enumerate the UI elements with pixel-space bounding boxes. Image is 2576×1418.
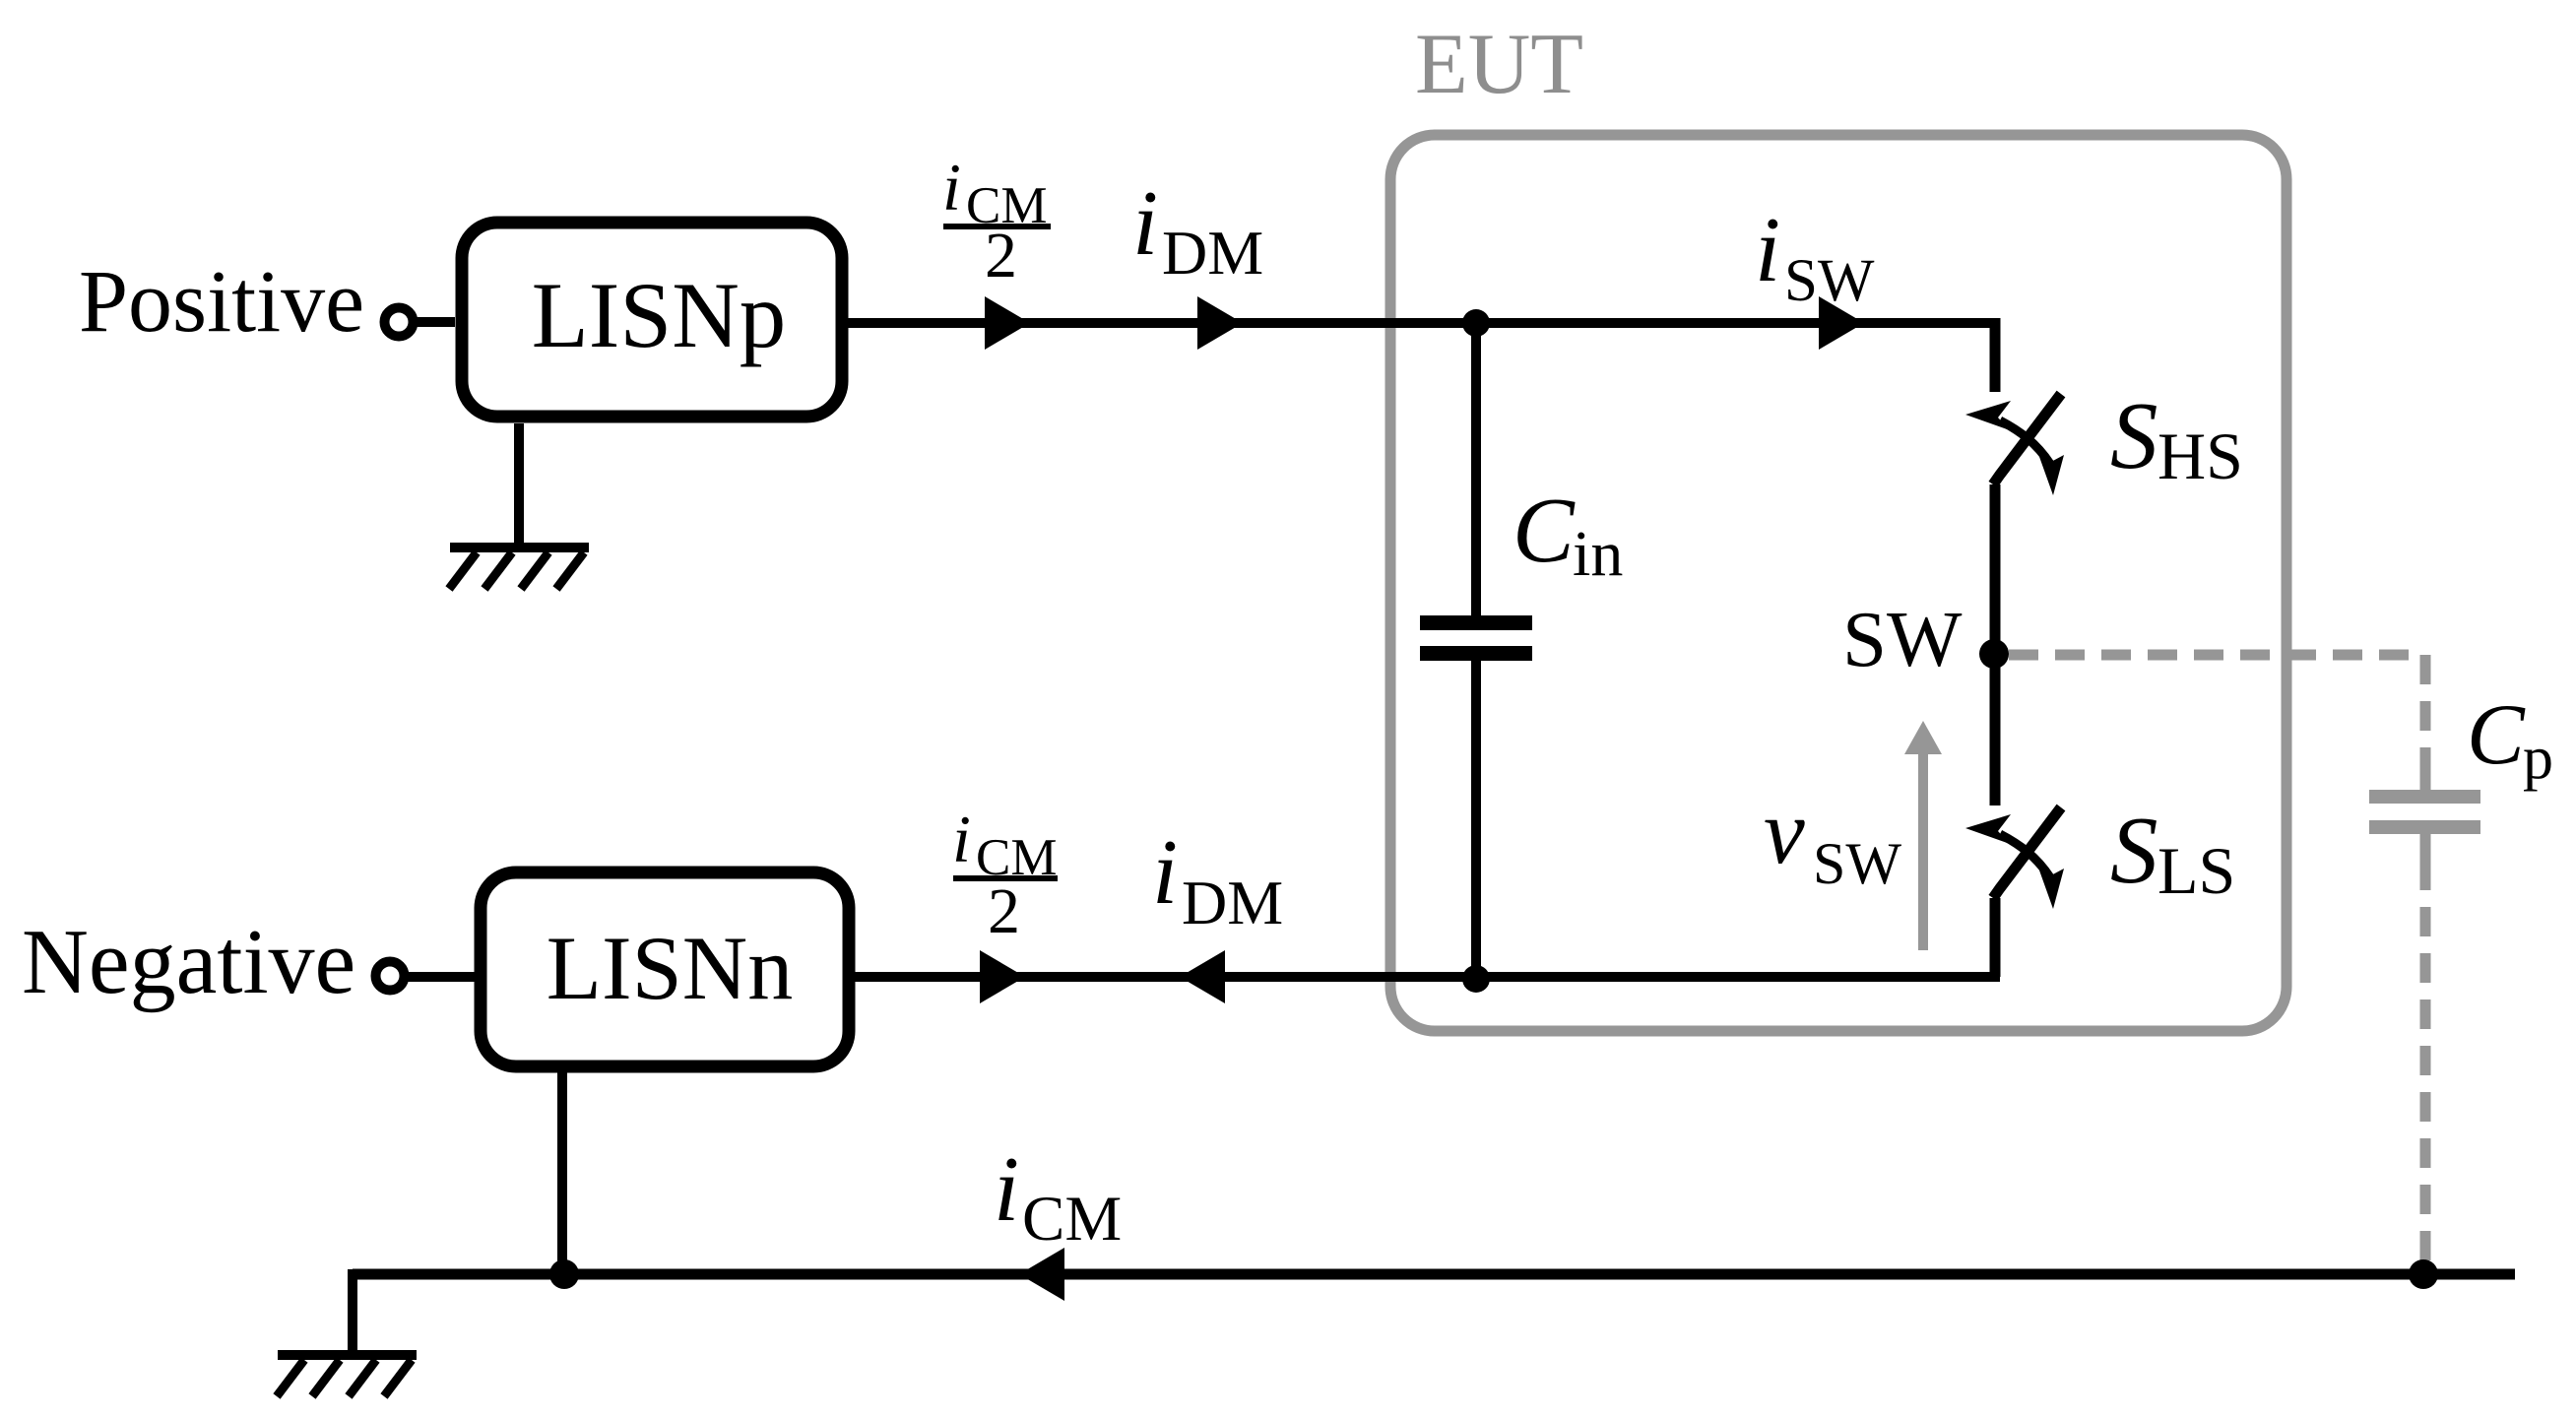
- label iSW: [1755, 199, 1875, 314]
- label iDM (bottom): [1152, 821, 1283, 937]
- svg-text:i: i: [952, 802, 971, 876]
- svg-text:i: i: [1755, 199, 1780, 301]
- node junction dot ground rail: [549, 1259, 579, 1289]
- svg-text:LISNp: LISNp: [532, 263, 787, 367]
- node Negative terminal circle: [376, 962, 405, 991]
- label Cin: [1513, 480, 1623, 590]
- wire Cp solid stub lower: [2420, 834, 2431, 861]
- block LISNp: [462, 223, 842, 417]
- wire LISNp ground stem: [514, 423, 524, 548]
- svg-text:LISNn: LISNn: [547, 918, 793, 1018]
- ground (bottom left): [277, 1355, 417, 1396]
- svg-text:Positive: Positive: [79, 253, 364, 351]
- node SW dot: [1979, 639, 2009, 669]
- svg-text:HS: HS: [2157, 419, 2243, 493]
- wire dashed SW to Cp (horizontal): [2009, 650, 2425, 661]
- block LISNn: [481, 872, 849, 1066]
- svg-text:CM: CM: [1022, 1184, 1122, 1255]
- svg-text:SW: SW: [1813, 831, 1901, 896]
- wire S_HS upper terminal from SW dot: [1990, 654, 2001, 806]
- node junction dot top (Cin top): [1462, 309, 1490, 337]
- svg-text:in: in: [1573, 518, 1623, 590]
- arrow vSW (gray): [1904, 721, 1942, 950]
- svg-text:Negative: Negative: [22, 911, 355, 1013]
- wire Cin upper lead: [1471, 323, 1481, 616]
- wire LISNn ground stem: [557, 1066, 567, 1274]
- wire S_LS lower terminal: [1990, 898, 2001, 977]
- svg-text:C: C: [2467, 687, 2526, 783]
- svg-text:i: i: [994, 1138, 1019, 1241]
- svg-text:p: p: [2523, 725, 2553, 792]
- label vSW: [1764, 781, 1901, 896]
- wire Cin lower lead: [1471, 661, 1481, 977]
- wire Cp solid stub upper: [2420, 758, 2431, 790]
- svg-text:SW: SW: [1842, 595, 1963, 683]
- wire S_HS to SW node: [1990, 484, 2001, 650]
- svg-text:S: S: [2110, 798, 2158, 903]
- label iCM/2 fraction (top): [942, 150, 1051, 291]
- arrowhead iCM/2 top: [985, 296, 1030, 350]
- wire switch branch corner down: [1990, 318, 2001, 392]
- wire dashed Cp vertical upper: [2420, 655, 2431, 766]
- capacitor Cin: [1420, 615, 1532, 661]
- capacitor Cp: [2369, 790, 2480, 834]
- svg-text:S: S: [2110, 383, 2158, 488]
- switch S_HS: [1965, 394, 2064, 495]
- label iCM (bottom rail): [994, 1138, 1122, 1255]
- label S_HS: [2110, 383, 2243, 493]
- label Cp: [2467, 687, 2553, 792]
- wire Negative terminal to LISNn: [405, 972, 475, 982]
- svg-text:EUT: EUT: [1415, 17, 1583, 112]
- ground (under LISNp): [449, 548, 589, 589]
- svg-text:i: i: [942, 150, 961, 225]
- svg-text:DM: DM: [1162, 218, 1263, 288]
- wire top rail LISNp to switch corner: [842, 318, 1995, 328]
- switch S_LS: [1965, 807, 2064, 909]
- svg-text:2: 2: [988, 875, 1020, 947]
- arrowhead iSW: [1819, 296, 1864, 350]
- wire ground rail left drop: [348, 1269, 357, 1355]
- wire ground rail: [353, 1269, 2515, 1280]
- svg-text:i: i: [1152, 821, 1178, 924]
- svg-text:v: v: [1764, 781, 1805, 883]
- label iDM (top): [1132, 172, 1263, 288]
- wire Positive terminal to LISNp: [414, 317, 455, 327]
- node Positive terminal circle: [385, 308, 414, 337]
- label S_LS: [2110, 798, 2235, 908]
- node junction dot bottom (Cin bottom): [1462, 965, 1490, 993]
- arrowhead iCM (left): [1019, 1248, 1064, 1301]
- node junction dot Cp to ground rail: [2409, 1259, 2438, 1289]
- wire bottom rail LISNn to S_LS: [849, 972, 2000, 982]
- svg-text:LS: LS: [2157, 833, 2235, 908]
- svg-text:DM: DM: [1182, 868, 1283, 937]
- svg-text:C: C: [1513, 480, 1576, 582]
- wire dashed Cp vertical lower: [2420, 861, 2431, 1268]
- arrowhead iDM bottom (left): [1180, 950, 1225, 1003]
- svg-text:2: 2: [985, 220, 1017, 291]
- label iCM/2 fraction (bottom): [952, 802, 1058, 947]
- arrowhead iDM top: [1197, 296, 1243, 350]
- svg-text:i: i: [1132, 172, 1158, 275]
- arrowhead iCM/2 bottom (right): [980, 950, 1025, 1003]
- EUT box: [1390, 135, 2286, 1031]
